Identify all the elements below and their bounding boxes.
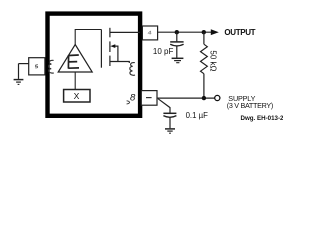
wire amplifier output to MOSFET gate (75, 30, 101, 45)
transistor Q1 (output MOSFET) (101, 28, 140, 68)
bond wire squiggle pin 8 (127, 101, 130, 104)
lead box pin 4 (output, top right) (142, 26, 157, 40)
lead box pin 5 (left) (29, 58, 45, 75)
node B junction dot (output/R1) (202, 30, 206, 34)
ground C1 (172, 58, 184, 62)
Hall element X (64, 90, 90, 103)
svg-text:10 pF: 10 pF (153, 47, 174, 56)
svg-text:X: X (74, 91, 80, 101)
svg-text:(3 V BATTERY): (3 V BATTERY) (227, 101, 273, 110)
body arrow (114, 46, 118, 61)
pin 4 number (148, 31, 151, 35)
svg-text:8: 8 (130, 92, 136, 103)
capacitor C2 0.1 uF (158, 99, 176, 129)
drain stub (110, 31, 140, 33)
OUTPUT arrow (211, 29, 219, 35)
node C junction dot (supply/R1) (202, 96, 206, 100)
svg-text:Dwg. EH-013-2: Dwg. EH-013-2 (241, 115, 284, 122)
bond wire squiggle pin 5 (49, 60, 54, 73)
lead box pin 8 (supply, bottom right) (141, 91, 157, 106)
body arrow head (110, 44, 115, 48)
bond wire squiggle Q1 source (130, 63, 135, 76)
resistor R1 50 kOhm (200, 32, 207, 98)
amplifier A1 (triangle) (58, 45, 92, 73)
source stub (110, 62, 129, 64)
chopper symbol inside amplifier (68, 55, 79, 69)
IC package outline U1 (48, 14, 141, 116)
capacitor C1 10 pF (170, 32, 183, 58)
svg-text:0.1 µF: 0.1 µF (186, 111, 208, 120)
gate bar (100, 30, 102, 68)
wire amplifier input to Hall element (74, 72, 76, 90)
dash inside pin 8 box (146, 97, 152, 99)
ground C2 (165, 129, 175, 133)
node A junction dot (output/C1) (175, 30, 179, 34)
wire pin 8 to supply terminal (157, 97, 214, 99)
wire pin 4 to output node (158, 31, 212, 33)
svg-text:OUTPUT: OUTPUT (224, 28, 255, 37)
channel segments (109, 28, 111, 38)
ground (left, input reference) (14, 64, 24, 85)
pin 5 number (35, 65, 38, 68)
supply terminal circle (215, 95, 220, 100)
wire ground to pin 5 (19, 63, 29, 65)
svg-text:50 kΩ: 50 kΩ (208, 50, 217, 71)
